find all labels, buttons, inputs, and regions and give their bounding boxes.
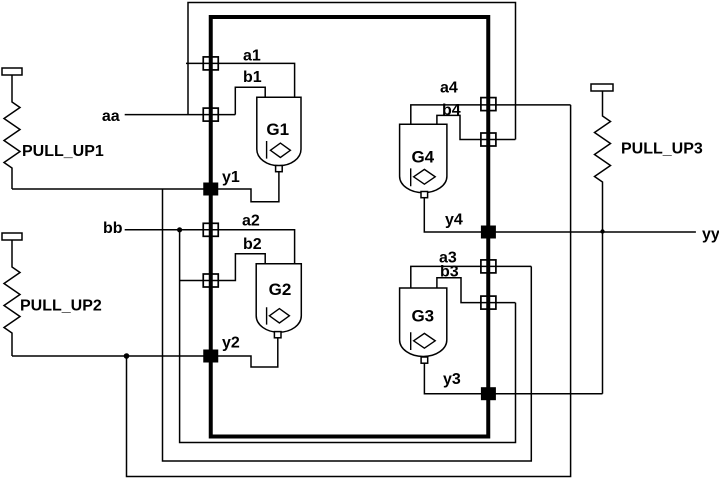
terminal a2 on bus [203, 223, 218, 236]
svg-text:y3: y3 [443, 371, 461, 388]
nand gate G3 [400, 288, 447, 363]
svg-text:a2: a2 [242, 213, 260, 230]
svg-text:b1: b1 [243, 69, 262, 86]
svg-text:PULL_UP3: PULL_UP3 [621, 141, 703, 158]
svg-text:G4: G4 [411, 148, 434, 167]
wire b2 jog [180, 254, 266, 281]
svg-text:b3: b3 [440, 264, 459, 281]
svg-text:y4: y4 [445, 212, 463, 229]
svg-text:b2: b2 [243, 236, 262, 253]
svg-text:G2: G2 [269, 280, 292, 299]
terminal a4 on bus [481, 98, 496, 111]
wire a4 [411, 105, 571, 124]
node yy junction dot [600, 229, 604, 233]
terminal b2 on bus [203, 274, 218, 287]
wire b3 jog [437, 278, 516, 303]
wire y4 to yy [424, 198, 696, 232]
resistor PULL_UP1 [2, 68, 22, 189]
svg-text:G3: G3 [411, 307, 434, 326]
terminal b4 on bus [481, 133, 496, 146]
terminal b3 on bus [481, 296, 496, 309]
wire bb-b2-b3 bottom feedback [180, 230, 516, 443]
svg-text:G1: G1 [266, 120, 289, 139]
svg-text:PULL_UP2: PULL_UP2 [20, 298, 102, 315]
terminal a3 on bus [481, 260, 496, 273]
svg-text:y2: y2 [222, 335, 240, 352]
junction y3 [481, 387, 496, 400]
wire y3 [424, 363, 602, 394]
wire G1 output to y1 [211, 172, 279, 202]
svg-text:a1: a1 [243, 48, 261, 65]
junction y4 [481, 226, 496, 239]
nand gate G2 [256, 264, 301, 338]
svg-text:yy: yy [702, 226, 719, 243]
svg-text:a4: a4 [440, 80, 458, 97]
svg-text:y1: y1 [222, 169, 240, 186]
nand gate G1 [257, 97, 301, 172]
junction y2 [203, 350, 218, 363]
wire a1 [186, 63, 295, 97]
terminal a1 on bus [203, 57, 218, 70]
svg-text:aa: aa [102, 108, 120, 125]
wire a4-y2 bottom feedback [127, 105, 571, 477]
wire aa [125, 114, 236, 116]
wire bb to a2 [125, 230, 295, 264]
node y2 junction dot [124, 353, 130, 359]
nand gate G4 [400, 124, 447, 198]
wire a3 [411, 266, 532, 288]
wire G2 output to y2 [211, 338, 278, 367]
node bb junction dot [177, 227, 182, 232]
resistor PULL_UP2 [2, 233, 22, 356]
wire b4 feedback via top rectangle (aa to b4) [188, 3, 516, 140]
wire b1 jog [235, 87, 265, 114]
svg-text:bb: bb [103, 220, 123, 237]
wire y2 from PULL_UP2 [12, 355, 211, 357]
wire y3-yy feedback [602, 232, 604, 394]
wire y1-a3 bottom feedback [163, 189, 532, 461]
wire y1 from PULL_UP1 [12, 188, 211, 190]
junction y1 [203, 183, 218, 196]
terminal b1 on bus [203, 108, 218, 121]
wire b4 jog [437, 115, 516, 139]
svg-text:PULL_UP1: PULL_UP1 [22, 143, 104, 160]
thick bus rectangle [211, 17, 489, 437]
svg-text:b4: b4 [442, 102, 461, 119]
resistor PULL_UP3 [591, 84, 613, 232]
